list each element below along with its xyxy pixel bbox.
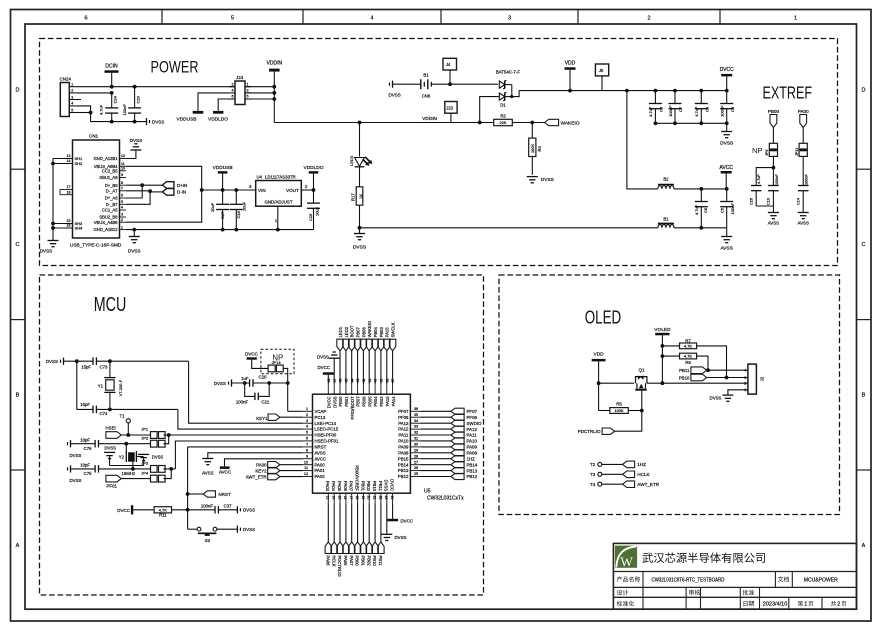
capacitor C75 10pF	[80, 463, 150, 476]
svg-text:PA10: PA10	[467, 439, 478, 444]
MCU top pin stubs and labels	[326, 379, 395, 420]
svg-text:KEY1: KEY1	[256, 416, 268, 421]
net flag D+IN	[126, 182, 187, 189]
svg-text:3: 3	[306, 419, 308, 423]
CN1 left shield pins	[51, 154, 83, 240]
svg-text:26: 26	[414, 466, 418, 470]
svg-text:PA04: PA04	[331, 481, 336, 492]
svg-text:17: 17	[349, 496, 353, 500]
svg-text:T1: T1	[119, 414, 125, 419]
svg-text:100nF: 100nF	[805, 174, 809, 185]
ground AVSS below PB00	[768, 213, 779, 226]
svg-text:C6: C6	[703, 207, 708, 213]
svg-text:C7: C7	[678, 106, 683, 112]
svg-text:DCIN: DCIN	[105, 64, 118, 70]
svg-text:D: D	[16, 88, 20, 94]
power flag VDDUSB at U4	[213, 165, 233, 192]
battery B1 CN6	[393, 73, 499, 99]
svg-text:36: 36	[414, 407, 418, 411]
crystal Y2 16MHz	[119, 444, 137, 476]
svg-text:C: C	[862, 242, 866, 248]
svg-text:MCU&POWER: MCU&POWER	[804, 577, 838, 583]
svg-text:5: 5	[306, 431, 308, 435]
ferrite bead B2	[658, 177, 674, 189]
svg-text:1: 1	[794, 16, 797, 22]
svg-text:VBUS_A4B9: VBUS_A4B9	[94, 220, 118, 225]
svg-text:14: 14	[67, 159, 71, 163]
svg-text:4: 4	[306, 425, 308, 429]
svg-text:AVSS: AVSS	[202, 470, 214, 475]
svg-text:48: 48	[327, 379, 331, 383]
svg-text:PA12: PA12	[398, 427, 409, 432]
svg-text:2: 2	[837, 602, 840, 608]
svg-text:AVSS: AVSS	[315, 450, 326, 455]
power stub DVSS at C20	[214, 379, 250, 386]
svg-text:18: 18	[355, 496, 359, 500]
testpoint T1	[119, 414, 130, 437]
svg-text:28: 28	[414, 454, 418, 458]
svg-text:D-IN: D-IN	[177, 190, 186, 195]
company name text	[642, 553, 652, 563]
MCU bottom net flags	[325, 503, 384, 577]
svg-text:J24: J24	[236, 75, 244, 80]
svg-text:JP14: JP14	[272, 360, 282, 365]
svg-text:CN6: CN6	[422, 94, 431, 99]
svg-text:4: 4	[370, 16, 373, 22]
power stub DVSS at C75	[68, 465, 96, 472]
power stub DVSS at S3	[237, 526, 255, 533]
svg-text:VCAP: VCAP	[315, 409, 327, 414]
svg-text:C19: C19	[767, 198, 771, 205]
jumper JP14	[268, 360, 290, 411]
power flag VDD	[565, 61, 576, 93]
svg-text:CW32L031C8T6-RTC_TESTBOARD: CW32L031C8T6-RTC_TESTBOARD	[652, 577, 725, 583]
capacitor C74 15pF	[77, 361, 178, 416]
wire ground rail CN24	[91, 121, 146, 123]
svg-text:47: 47	[333, 379, 337, 383]
resistor R17 1K	[350, 167, 363, 230]
svg-text:SWDIO: SWDIO	[467, 421, 482, 426]
svg-text:9: 9	[306, 454, 308, 458]
svg-text:AVCC: AVCC	[219, 469, 232, 474]
svg-text:42: 42	[362, 379, 366, 383]
svg-text:10: 10	[121, 167, 125, 171]
net flag PA00	[256, 462, 302, 468]
wire CN24 pin2	[75, 92, 111, 94]
svg-text:J5: J5	[599, 68, 604, 73]
svg-text:30: 30	[414, 443, 418, 447]
svg-text:2: 2	[121, 218, 123, 222]
wire Q1 drain to J2	[647, 382, 748, 384]
svg-text:PDCTRLIO: PDCTRLIO	[578, 429, 601, 434]
connector J2 OLED header	[744, 364, 764, 394]
svg-text:PB01: PB01	[360, 481, 365, 492]
svg-text:CN1: CN1	[89, 134, 99, 139]
capacitor C21 100nF	[236, 383, 270, 404]
svg-text:20: 20	[367, 496, 371, 500]
svg-text:NRST: NRST	[219, 492, 232, 497]
svg-text:3: 3	[121, 213, 123, 217]
svg-text:16: 16	[67, 224, 71, 228]
LED3 power indicator	[349, 123, 372, 167]
svg-text:PA14: PA14	[391, 396, 396, 407]
ground DVSS at J2 pin1	[710, 390, 748, 402]
svg-text:DVSS: DVSS	[46, 359, 58, 364]
svg-text:D1: D1	[500, 103, 506, 108]
power flag DCIN	[105, 64, 119, 87]
svg-text:DVSS: DVSS	[70, 453, 82, 458]
capacitor C5 100nF	[719, 189, 735, 228]
svg-text:22: 22	[378, 496, 382, 500]
power flag DVCC top right	[720, 67, 735, 91]
power flag DVCC at MCU bottom pin 24	[387, 503, 413, 523]
svg-text:2: 2	[306, 413, 308, 417]
svg-text:15pF: 15pF	[80, 402, 90, 407]
svg-text:PF03/BOOT: PF03/BOOT	[350, 396, 355, 419]
svg-text:8: 8	[306, 448, 308, 452]
svg-text:C3: C3	[730, 106, 735, 112]
svg-text:C76: C76	[84, 446, 92, 451]
svg-text:100nF: 100nF	[122, 104, 127, 116]
svg-text:DVSS: DVSS	[70, 478, 82, 483]
capacitor C7 100nF	[668, 89, 683, 126]
svg-text:21: 21	[373, 496, 377, 500]
svg-text:15pF: 15pF	[81, 364, 91, 369]
svg-text:PA07: PA07	[349, 481, 354, 492]
svg-text:DVSS: DVSS	[353, 245, 366, 251]
svg-text:PB13: PB13	[398, 468, 409, 473]
svg-text:PA03: PA03	[325, 481, 330, 492]
CN1 right side pins	[94, 154, 126, 232]
svg-text:CW32L031CxTx: CW32L031CxTx	[427, 496, 464, 502]
svg-text:VIN: VIN	[258, 188, 266, 193]
svg-text:100nF: 100nF	[201, 504, 214, 509]
svg-text:PB14: PB14	[398, 462, 409, 467]
svg-text:PA06: PA06	[343, 556, 348, 567]
capacitor C20 1uF	[241, 375, 288, 387]
svg-text:VT-200-F: VT-200-F	[118, 379, 123, 396]
ground DVSS left of Y2	[104, 445, 116, 465]
wire D+ pin6 jog	[126, 185, 142, 198]
svg-text:LD1117AS33TR: LD1117AS33TR	[265, 175, 296, 180]
svg-text:4.7K: 4.7K	[684, 354, 692, 359]
svg-text:JP3: JP3	[141, 461, 149, 466]
svg-text:14: 14	[332, 496, 336, 500]
svg-text:B1: B1	[423, 73, 429, 78]
svg-text:PB12: PB12	[467, 474, 478, 479]
ground DVSS at MCU top pin 38	[317, 352, 340, 384]
svg-text:C23: C23	[135, 95, 140, 103]
capacitor C14 100nF on PA00	[797, 156, 809, 212]
svg-text:PB03: PB03	[379, 396, 384, 407]
svg-text:PF06: PF06	[467, 415, 478, 420]
svg-text:DVSS: DVSS	[395, 535, 407, 540]
svg-text:PB02: PB02	[366, 481, 371, 492]
ground DVSS below cap bank	[720, 132, 733, 147]
svg-text:PF01: PF01	[107, 484, 118, 489]
svg-text:41: 41	[368, 379, 372, 383]
svg-text:PB10: PB10	[372, 481, 377, 492]
capacitor C17 20uF	[210, 190, 229, 232]
wire VIN rail	[202, 189, 256, 191]
testpoint T3 with HCLK flag	[590, 471, 651, 478]
svg-text:27: 27	[414, 460, 418, 464]
switch S3 reset	[188, 527, 238, 543]
svg-text:PA11: PA11	[399, 433, 409, 438]
svg-text:D: D	[862, 88, 866, 94]
svg-text:3: 3	[247, 89, 249, 93]
svg-text:PB05: PB05	[367, 396, 372, 407]
svg-text:PA08: PA08	[398, 450, 409, 455]
net flag WAKEIO	[545, 119, 580, 126]
wire R3 to WAKEIO	[512, 122, 544, 124]
power flag DVCC at R11	[117, 505, 154, 514]
svg-text:23: 23	[384, 496, 388, 500]
svg-text:J23: J23	[446, 105, 453, 110]
node VDD-AVCC branch junction	[625, 89, 629, 93]
svg-text:45: 45	[345, 379, 349, 383]
jumper JP2	[141, 435, 169, 447]
svg-text:46: 46	[339, 379, 343, 383]
svg-text:PB07: PB07	[355, 326, 360, 337]
svg-text:U4: U4	[257, 175, 263, 180]
crystal Y1 VT-200-F	[98, 361, 123, 409]
wire VDDIN horizontal rail	[274, 122, 493, 124]
svg-text:4: 4	[71, 102, 73, 106]
wire VCAP to MCU pin1	[288, 410, 303, 412]
svg-text:PA15: PA15	[385, 396, 390, 407]
net flag NRST	[188, 491, 231, 497]
resistor R3 22K	[494, 114, 513, 126]
svg-text:Y2: Y2	[119, 455, 125, 460]
node VDDIN-LED3 junction	[358, 121, 362, 125]
svg-text:PB06: PB06	[362, 396, 367, 407]
svg-text:B: B	[16, 393, 20, 399]
svg-text:10: 10	[304, 460, 308, 464]
svg-text:PB04: PB04	[373, 326, 378, 337]
svg-text:PB03: PB03	[379, 326, 384, 337]
battery DVSS stub	[389, 81, 401, 98]
svg-text:HSEI: HSEI	[106, 426, 116, 431]
svg-text:R3: R3	[500, 114, 506, 119]
wire VDD rail	[519, 90, 727, 92]
svg-text:PB07: PB07	[356, 396, 361, 407]
svg-text:PB10: PB10	[372, 556, 377, 567]
ground AVSS right	[720, 237, 732, 252]
net flag HSEI	[106, 426, 151, 439]
svg-text:2: 2	[71, 89, 73, 93]
ground DVSS below CN1 shield	[40, 241, 59, 254]
svg-text:PA05: PA05	[337, 481, 342, 492]
wire VBUS loop pin11 pin2	[126, 166, 202, 222]
svg-text:33: 33	[414, 425, 418, 429]
net flag PB00 and jumper JP9	[752, 109, 780, 156]
wire D1 anode to VDDIN	[480, 97, 499, 123]
svg-text:CC2_B5: CC2_B5	[102, 168, 118, 173]
svg-text:VDDUSB: VDDUSB	[213, 165, 233, 171]
svg-text:8: 8	[121, 181, 123, 185]
svg-text:AWT_ETR: AWT_ETR	[637, 482, 659, 487]
svg-text:1: 1	[306, 407, 308, 411]
svg-text:11: 11	[121, 162, 125, 166]
svg-text:PA08: PA08	[467, 451, 478, 456]
svg-text:GND_A1B12: GND_A1B12	[94, 227, 119, 232]
svg-text:PB01: PB01	[344, 396, 349, 407]
svg-text:1: 1	[121, 225, 123, 229]
wire J24 pin6 to VDDLDO	[218, 99, 229, 111]
svg-text:PA12: PA12	[467, 427, 478, 432]
svg-text:PB00: PB00	[768, 109, 780, 114]
ground AVSS at MCU pin8	[202, 453, 303, 476]
ground DVSS below CN1 pin1	[128, 230, 141, 254]
svg-text:19: 19	[361, 496, 365, 500]
resistor R7 4.7K	[662, 338, 728, 379]
ground DVSS below LED3	[353, 228, 366, 251]
svg-text:DVSS: DVSS	[243, 508, 255, 513]
svg-text:12: 12	[304, 472, 308, 476]
svg-text:PA15: PA15	[385, 327, 390, 338]
transistor Q1 PMOS	[635, 367, 647, 410]
svg-text:16: 16	[343, 496, 347, 500]
svg-text:LED3: LED3	[349, 155, 354, 166]
svg-text:5: 5	[247, 95, 249, 99]
resistor R4 100K	[529, 123, 542, 175]
svg-text:PA01: PA01	[315, 468, 326, 473]
svg-text:22K: 22K	[500, 120, 507, 125]
connector CN1 USB Type-C	[70, 134, 122, 248]
wire J24 right pins to VDDIN rail	[245, 86, 274, 88]
svg-text:AVCC: AVCC	[719, 165, 733, 171]
svg-text:SH4: SH4	[75, 226, 84, 231]
capacitor C6 4.7uF	[694, 189, 708, 228]
svg-text:DVSS: DVSS	[720, 141, 733, 147]
svg-text:POWER: POWER	[151, 58, 199, 77]
svg-text:40: 40	[374, 379, 378, 383]
net flag KEY1	[256, 414, 302, 421]
power flag VDDLDO at U4	[304, 165, 324, 190]
wire AVSS rail	[359, 227, 658, 229]
ferrite bead B1	[658, 217, 674, 228]
svg-text:DVCC: DVCC	[117, 508, 131, 513]
power flag VDDIN top	[267, 61, 283, 72]
svg-text:T4: T4	[590, 482, 596, 487]
svg-text:PA00: PA00	[315, 462, 326, 467]
svg-text:PF07: PF07	[398, 409, 409, 414]
svg-text:JP9: JP9	[765, 149, 769, 156]
svg-text:C20: C20	[259, 375, 267, 380]
power stub DVSS at C76	[68, 440, 96, 447]
capacitor C18 10uF	[230, 188, 247, 231]
svg-text:13: 13	[326, 496, 330, 500]
svg-text:DVSS: DVSS	[152, 119, 164, 124]
diode D1 BAT54C-7-F dual schottky	[496, 70, 521, 108]
svg-text:PB15: PB15	[398, 456, 409, 461]
connector J5	[595, 64, 608, 91]
capacitor C3 100nF	[720, 89, 735, 126]
svg-text:WAKEIO: WAKEIO	[561, 121, 580, 127]
capacitor C76 10pF	[80, 438, 150, 451]
svg-text:DVSS: DVSS	[317, 355, 329, 360]
svg-text:100nF: 100nF	[730, 203, 735, 215]
net flag AWT_ETR	[246, 473, 303, 479]
svg-text:R5: R5	[616, 401, 622, 406]
svg-text:6: 6	[121, 194, 123, 198]
svg-text:15: 15	[67, 219, 71, 223]
svg-text:DVCC: DVCC	[720, 67, 735, 73]
svg-text:100K: 100K	[614, 408, 623, 413]
svg-text:2: 2	[647, 16, 650, 22]
svg-text:PA13: PA13	[398, 421, 409, 426]
svg-text:CN24: CN24	[60, 77, 72, 82]
svg-text:10uF: 10uF	[241, 201, 246, 211]
svg-text:U5: U5	[424, 489, 431, 495]
svg-text:JP1: JP1	[141, 427, 149, 432]
svg-text:JP11: JP11	[795, 148, 799, 156]
svg-text:Q1: Q1	[638, 367, 645, 372]
svg-text:PB13: PB13	[467, 468, 478, 473]
power flag VDDLDO	[208, 111, 228, 123]
capacitor C73 15pF	[75, 357, 189, 369]
svg-text:PA07: PA07	[349, 556, 354, 567]
svg-text:SH2: SH2	[75, 161, 84, 166]
connector CN24	[60, 77, 76, 117]
svg-text:C9: C9	[705, 106, 710, 112]
capacitor C26 4.7uF on PB00	[750, 156, 776, 206]
wire NRST net	[188, 446, 303, 448]
connector J24 jumper block	[229, 75, 251, 105]
svg-text:A: A	[862, 543, 866, 549]
svg-text:10uF: 10uF	[315, 206, 320, 216]
ground DVSS below R4	[527, 177, 554, 184]
power flag AVCC	[719, 165, 733, 189]
ground DVSS at MCU bottom pin 23	[381, 503, 406, 540]
svg-text:PB11: PB11	[378, 556, 383, 567]
svg-text:100nF: 100nF	[720, 105, 725, 117]
svg-text:JP2: JP2	[141, 435, 149, 440]
MCU bottom pin stubs and labels	[325, 465, 394, 503]
NP dashed box at JP14	[261, 349, 294, 374]
svg-text:PB00/VCREF: PB00/VCREF	[354, 465, 359, 491]
svg-text:5: 5	[121, 200, 123, 204]
svg-text:DVCC: DVCC	[401, 519, 413, 524]
svg-text:BOOT: BOOT	[350, 325, 355, 337]
POWER section dashed box	[40, 39, 838, 266]
svg-text:DVCC: DVCC	[390, 479, 395, 491]
svg-text:6: 6	[306, 437, 308, 441]
svg-text:BAT54C-7-F: BAT54C-7-F	[496, 70, 521, 75]
svg-text:GND/ADJUST: GND/ADJUST	[264, 200, 292, 205]
svg-text:6: 6	[232, 95, 234, 99]
svg-text:DVSS: DVSS	[214, 381, 226, 386]
capacitor C23 100nF	[122, 85, 141, 122]
svg-text:C74: C74	[100, 411, 108, 416]
svg-text:PA09: PA09	[467, 445, 478, 450]
svg-text:1uF: 1uF	[241, 376, 249, 381]
svg-text:C21: C21	[261, 399, 269, 404]
svg-text:31: 31	[414, 437, 418, 441]
svg-text:DVSS: DVSS	[710, 396, 722, 401]
wire CN1 pin1 ground rail	[126, 229, 314, 231]
svg-text:4.7K: 4.7K	[684, 344, 692, 349]
wire VDD to Q1	[599, 382, 634, 384]
MCU right side net flags	[420, 408, 482, 479]
svg-text:LSEI-PC14: LSEI-PC14	[315, 421, 337, 426]
resistor R5 100K	[599, 401, 644, 413]
svg-text:DVCC: DVCC	[318, 365, 330, 370]
MCU left pin stubs and labels	[303, 407, 339, 479]
svg-text:Y1: Y1	[98, 384, 104, 389]
svg-text:11: 11	[304, 466, 308, 470]
